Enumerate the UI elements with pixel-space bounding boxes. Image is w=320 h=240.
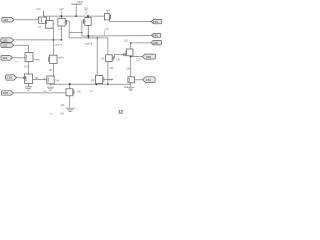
transistor M140 xyxy=(39,17,47,23)
wire output to pad q1 xyxy=(109,20,151,22)
svg-text:114: 114 xyxy=(106,8,111,12)
figure number underline xyxy=(119,112,124,114)
wire M_c to ground xyxy=(28,84,30,87)
gate bar M_g xyxy=(125,51,127,55)
wire p5 to tail gate xyxy=(14,92,67,94)
pad p2 xyxy=(1,38,14,42)
wire right latch drain xyxy=(87,25,89,38)
pad q3 xyxy=(151,40,162,45)
ground under M_e xyxy=(47,87,54,90)
svg-text:bulk n: bulk n xyxy=(58,57,65,59)
gate bar M_e xyxy=(47,78,49,83)
svg-text:139: 139 xyxy=(126,68,131,70)
svg-text:VDD: VDD xyxy=(77,0,83,4)
transistor M142 left latch xyxy=(58,18,65,26)
svg-text:152: 152 xyxy=(24,66,29,68)
junction dot M146 source xyxy=(107,83,109,85)
wire M_g to M_h xyxy=(130,56,132,77)
pad p3 xyxy=(1,43,14,48)
gate bar M_h xyxy=(128,78,130,82)
gate bar M_b xyxy=(47,57,49,62)
junction dot rail vdd xyxy=(75,15,77,17)
svg-text:164: 164 xyxy=(60,113,65,115)
svg-text:152: 152 xyxy=(90,91,94,93)
pad q4 xyxy=(143,77,155,83)
gate bar M_f xyxy=(103,77,105,82)
junction dot q3b branch xyxy=(130,56,132,58)
wire M146 gate to M_g xyxy=(112,55,123,59)
wire pad q3 xyxy=(131,42,151,44)
svg-text:154: 154 xyxy=(49,70,54,72)
ground under M_c xyxy=(25,87,32,90)
svg-text:142: 142 xyxy=(59,7,64,11)
pad p4 xyxy=(5,75,16,80)
wire tail source to ground xyxy=(69,96,71,108)
transistor M_f xyxy=(96,76,103,84)
wire node B to pad q2 xyxy=(82,35,151,37)
junction dot node B xyxy=(87,35,89,37)
wire p4 to M_c gate xyxy=(17,77,24,79)
svg-text:124: 124 xyxy=(2,56,7,60)
wire T141 top lead xyxy=(48,16,50,21)
svg-text:146: 146 xyxy=(153,34,158,38)
wire p2 node A xyxy=(14,39,62,41)
wire left latch gate xyxy=(65,21,69,38)
svg-text:144: 144 xyxy=(105,29,110,31)
svg-text:122: 122 xyxy=(2,43,7,47)
svg-text:110: 110 xyxy=(3,18,8,22)
transistor M_h xyxy=(128,77,135,83)
svg-text:126: 126 xyxy=(7,76,12,80)
junction dot node A xyxy=(61,39,63,41)
svg-text:128: 128 xyxy=(3,91,8,95)
gate bubble M_g xyxy=(123,54,125,56)
transistor M141 xyxy=(45,21,53,29)
pad q3b xyxy=(142,54,155,59)
transistor M_a xyxy=(25,53,33,62)
wire M_b drain up xyxy=(52,28,54,55)
transistor M_b xyxy=(50,55,58,63)
svg-text:node A: node A xyxy=(55,43,63,46)
transistor M_e xyxy=(47,76,54,84)
junction dot tail xyxy=(69,83,71,85)
svg-text:132: 132 xyxy=(91,80,96,82)
svg-text:166: 166 xyxy=(49,114,53,116)
svg-text:bulk p: bulk p xyxy=(34,60,41,62)
svg-text:156: 156 xyxy=(14,62,18,64)
wire gate drop to M146 xyxy=(69,38,108,55)
ground under tail xyxy=(66,108,76,111)
wire M_h to pad q4 xyxy=(135,79,143,81)
pad q1 xyxy=(151,19,162,23)
junction dot rail right xyxy=(87,15,89,17)
svg-text:152: 152 xyxy=(136,60,141,62)
transistor M_tail xyxy=(66,89,73,96)
svg-text:120: 120 xyxy=(2,38,7,42)
svg-text:142: 142 xyxy=(58,29,62,31)
svg-text:164: 164 xyxy=(55,81,60,83)
svg-text:160: 160 xyxy=(61,105,66,107)
junction dot M_b top xyxy=(53,39,55,41)
gate bar M_a xyxy=(25,55,27,60)
wire M_f gate stub xyxy=(103,79,113,81)
svg-text:158: 158 xyxy=(77,91,82,93)
transistor M116 output xyxy=(104,14,109,20)
junction dot M_f top xyxy=(97,37,98,38)
wire q3 chain top xyxy=(130,43,132,49)
svg-text:138: 138 xyxy=(109,68,114,70)
label lead lines xyxy=(62,10,108,36)
junction blob gate bend xyxy=(81,32,82,33)
gate bar M140 xyxy=(41,18,43,22)
junction dot node B lower xyxy=(88,37,89,38)
svg-text:13: 13 xyxy=(119,109,124,113)
svg-text:136: 136 xyxy=(116,60,121,62)
transistor M_g xyxy=(127,49,134,56)
wire p1 to M140 xyxy=(14,19,39,21)
junction dot q3 corner xyxy=(130,42,132,44)
junction dot M_f bottom xyxy=(95,84,97,86)
junction dot rail left xyxy=(60,15,62,17)
svg-text:134: 134 xyxy=(109,80,114,82)
wire p3 to M_a drain xyxy=(14,45,29,52)
gate bar M_c xyxy=(25,76,27,82)
wire p6 to M_a gate xyxy=(13,57,26,59)
pad q2 xyxy=(151,33,161,37)
wire VDD rail xyxy=(43,15,104,17)
wire tail drain xyxy=(69,84,71,89)
gate bar M146 xyxy=(112,56,114,61)
wire M_c to M_e gate xyxy=(33,78,47,80)
svg-text:138: 138 xyxy=(38,26,42,28)
transistor M146 xyxy=(106,55,113,62)
svg-text:135: 135 xyxy=(124,40,129,42)
wire M_f top xyxy=(96,38,98,76)
svg-text:158: 158 xyxy=(146,55,151,59)
wire M_f bottom xyxy=(95,83,97,86)
wire right latch gate xyxy=(82,21,85,36)
gate bubble M_c xyxy=(23,77,25,79)
VDD supply bar xyxy=(71,3,81,5)
wire VSS rail xyxy=(50,83,131,85)
pad p5 xyxy=(1,91,13,95)
transistor M_c xyxy=(25,74,33,84)
wire M146 source down xyxy=(107,62,109,85)
svg-text:146: 146 xyxy=(100,58,105,60)
pad p1 xyxy=(2,17,14,22)
wire M_b to M_e xyxy=(52,64,54,77)
svg-text:150: 150 xyxy=(153,20,158,24)
svg-text:node B: node B xyxy=(85,42,93,45)
wire M_h to ground xyxy=(130,83,132,87)
wire branch to pad q3b xyxy=(131,56,143,58)
gate bar M142 xyxy=(66,20,68,25)
wire gate tie xyxy=(69,31,82,33)
gate bar M144 xyxy=(82,19,84,24)
transistor M144 right latch xyxy=(85,18,91,26)
svg-text:156: 156 xyxy=(146,78,151,82)
pad p6 xyxy=(1,55,13,60)
wire M_e ground stub xyxy=(49,84,51,86)
ground under M_h xyxy=(127,87,134,90)
svg-text:148: 148 xyxy=(152,41,157,45)
wire left latch drain xyxy=(60,26,62,40)
svg-text:140: 140 xyxy=(36,7,41,11)
svg-text:118: 118 xyxy=(84,6,89,10)
wire M_a to M_c xyxy=(28,62,30,75)
wire VDD tap xyxy=(75,4,77,16)
